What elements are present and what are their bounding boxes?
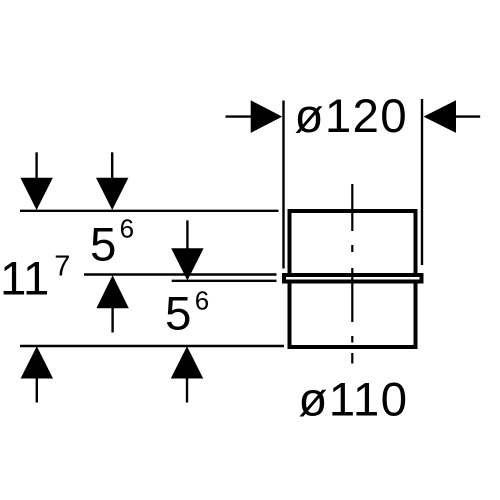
arrow down at top line x112 (dim 5.6 upper) xyxy=(96,152,128,210)
svg-text:5: 5 xyxy=(90,219,116,272)
svg-text:6: 6 xyxy=(195,286,209,316)
fitting collar xyxy=(284,275,422,282)
dim line o120 right shaft xyxy=(455,115,480,117)
arrow up at bottom line x36 (dim 11.7) xyxy=(21,346,53,402)
arrow down at line B x187 (dim 5.6 lower) xyxy=(171,220,203,280)
line A collar-top level xyxy=(84,273,277,275)
arrow right-pointing (o120 left) xyxy=(251,100,283,133)
fitting upper body xyxy=(290,211,416,275)
arrow up at bottom line x187 (dim 5.6 lower) xyxy=(171,346,203,402)
arrow up at line A x112 (dim 5.6 upper) xyxy=(96,275,128,332)
bottom level line xyxy=(20,345,284,347)
svg-text:ø110: ø110 xyxy=(298,374,408,427)
svg-text:7: 7 xyxy=(54,250,70,282)
svg-text:11: 11 xyxy=(0,253,49,306)
top level line xyxy=(20,210,279,212)
svg-text:5: 5 xyxy=(165,288,191,341)
arrow left-pointing (o120 right) xyxy=(424,100,457,133)
svg-text:ø120: ø120 xyxy=(295,90,408,143)
arrow down at top line x36 (dim 11.7) xyxy=(20,152,52,210)
centerline xyxy=(351,184,353,364)
svg-text:6: 6 xyxy=(120,214,134,244)
extension line right (o120) xyxy=(421,99,423,265)
fitting lower body xyxy=(290,282,416,348)
line B collar-bottom level xyxy=(172,280,277,282)
extension line left (o120) xyxy=(282,101,284,269)
dim line o120 left shaft xyxy=(226,115,253,117)
